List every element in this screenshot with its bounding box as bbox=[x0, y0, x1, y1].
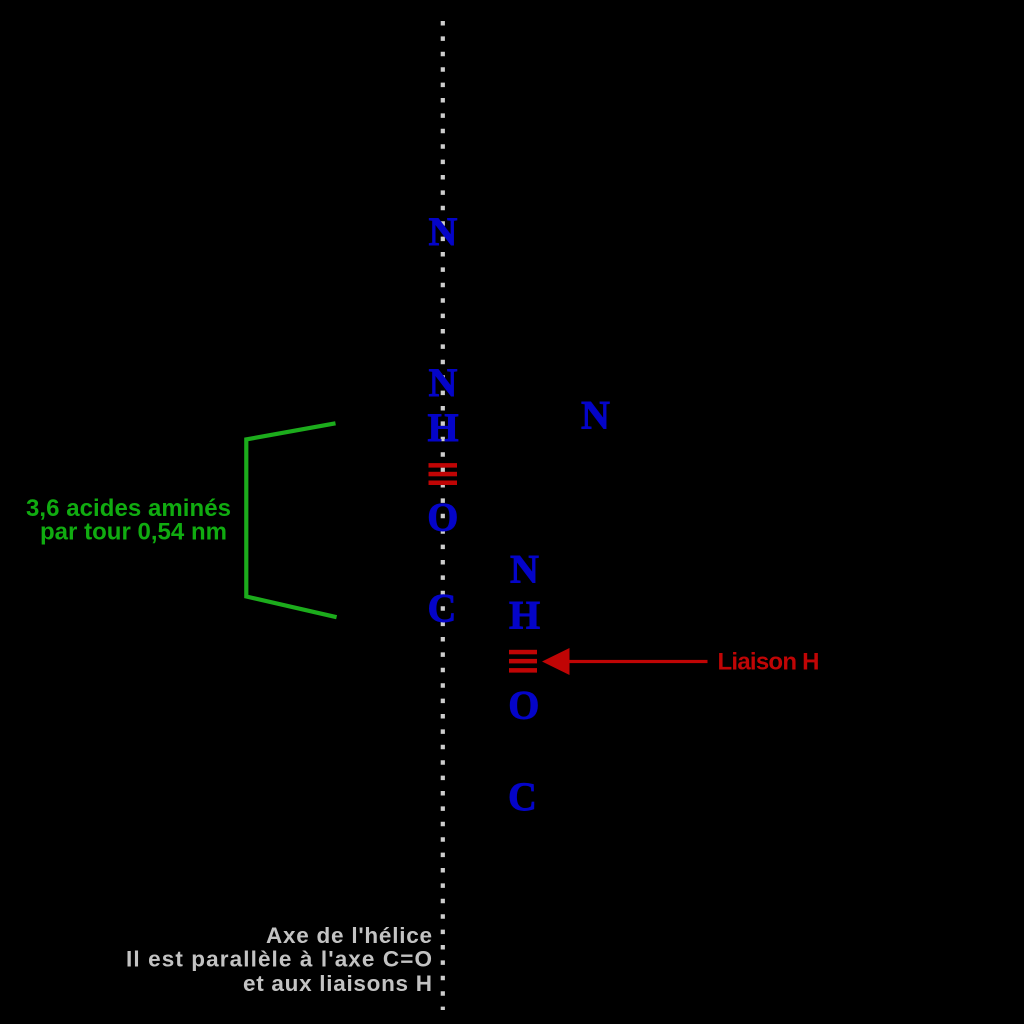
svg-text:N: N bbox=[429, 209, 458, 254]
svg-text:Axe de l'hélice: Axe de l'hélice bbox=[266, 923, 432, 948]
svg-text:Liaison H: Liaison H bbox=[718, 649, 820, 676]
svg-text:O: O bbox=[508, 682, 539, 727]
svg-text:N: N bbox=[581, 392, 610, 437]
svg-text:H: H bbox=[427, 405, 458, 450]
svg-text:et aux liaisons H: et aux liaisons H bbox=[243, 971, 432, 996]
svg-text:par tour 0,54 nm: par tour 0,54 nm bbox=[40, 519, 227, 546]
green bracket (helix pitch) bbox=[246, 423, 336, 617]
svg-text:H: H bbox=[509, 592, 540, 637]
helix axis dotted line bbox=[441, 21, 445, 1010]
svg-text:N: N bbox=[510, 546, 539, 591]
svg-text:C: C bbox=[508, 774, 537, 819]
hydrogen bond 2 (triple red bars, right column) bbox=[509, 650, 537, 673]
svg-text:Il est parallèle à l'axe C=O: Il est parallèle à l'axe C=O bbox=[126, 946, 432, 971]
svg-text:C: C bbox=[428, 586, 457, 631]
arrow head pointing to hydrogen bond 2 bbox=[542, 648, 570, 675]
hydrogen bond 1 (triple red bars, left column) bbox=[429, 463, 458, 485]
svg-text:O: O bbox=[427, 495, 458, 540]
svg-text:N: N bbox=[429, 360, 458, 405]
arrow line bbox=[569, 660, 708, 663]
